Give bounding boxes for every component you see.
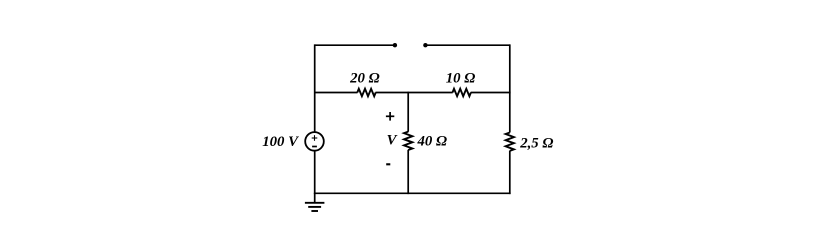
wire middle horizontal segment B (R1 to center node to R2) [376,92,453,94]
svg-text:20 Ω: 20 Ω [349,71,380,87]
wire right vertical upper (top wire down to R4, through middle node) [509,44,511,132]
wire left vertical lower (source V1 to bottom wire) [314,151,316,195]
voltage source V1 100 V [305,132,324,151]
resistor R4 2,5 ohm (vertical zigzag) [506,133,514,151]
label plus (voltage polarity) [386,112,394,121]
svg-text:100 V: 100 V [262,134,299,150]
wire right vertical lower (R4 to bottom wire) [509,151,511,194]
label minus (voltage polarity) [386,163,390,165]
resistor R1 20 ohm (horizontal zigzag) [357,89,375,96]
wire middle horizontal segment C (R2 to right branch) [471,92,511,94]
wire top-left horizontal (node top to switch) [315,44,395,46]
ground [305,193,325,211]
resistor R3 40 ohm (vertical zigzag) [404,132,412,150]
svg-text:40 Ω: 40 Ω [417,133,448,149]
svg-text:2,5 Ω: 2,5 Ω [519,135,553,151]
wire middle vertical upper (center node down to R3) [407,92,409,132]
wire left vertical upper (top wire down to source V1) [314,44,316,132]
wire top-right horizontal (switch to right branch) [425,44,509,46]
wire middle vertical lower (R3 to bottom wire) [407,150,409,194]
wire bottom horizontal [314,192,511,194]
switch terminal dot left [393,43,397,47]
resistor R2 10 ohm (horizontal zigzag) [453,89,471,96]
switch terminal dot right [423,43,427,47]
svg-text:V: V [387,132,398,148]
wire middle horizontal segment A (left node to resistor R1) [315,92,358,94]
svg-text:10 Ω: 10 Ω [446,71,476,87]
